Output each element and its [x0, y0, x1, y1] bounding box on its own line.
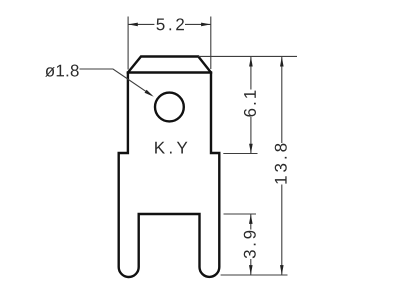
- dimension 6.1 line upper segment: [250, 57, 252, 90]
- dimension 5.2 extension line right: [210, 17, 212, 70]
- arrowhead 3.9 top: [249, 214, 253, 224]
- dimension text 13.8: [275, 144, 287, 184]
- notch extension line (3.9 top): [224, 213, 257, 215]
- leader line for hole diameter: [80, 69, 152, 95]
- dimension 13.8 line lower segment: [281, 185, 283, 275]
- arrowhead 3.9 bottom: [249, 265, 253, 275]
- part marking K.Y: [155, 142, 187, 154]
- arrowhead 6.1 top: [249, 57, 253, 67]
- dimension 3.9 line lower segment: [250, 259, 252, 275]
- arrowhead 6.1 bottom: [249, 144, 253, 154]
- arrowhead 5.2 right: [201, 23, 211, 27]
- hole: [155, 93, 184, 122]
- dimension 5.2 line right segment: [185, 23, 211, 25]
- chamfer fold line: [128, 71, 211, 73]
- dimension 3.9 line upper segment: [250, 214, 252, 229]
- arrowhead 5.2 left: [128, 23, 138, 27]
- dimension text 3.9: [244, 231, 256, 259]
- dimension 13.8 line upper segment: [281, 57, 283, 143]
- dimension 6.1 line lower segment: [250, 117, 252, 153]
- step extension line (6.1 bottom): [223, 153, 257, 155]
- dimension 5.2 extension line left: [127, 17, 129, 70]
- dimension 5.2 line left segment: [128, 23, 154, 25]
- bottom extension line: [221, 274, 288, 276]
- dimension text diameter 1.8: [45, 65, 78, 77]
- top extension line: [198, 55, 297, 57]
- arrowhead leader: [145, 90, 154, 97]
- dimension text 5.2: [156, 18, 183, 30]
- arrowhead 13.8 bottom: [280, 265, 284, 275]
- dimension text 6.1: [244, 91, 256, 117]
- terminal body outline: [119, 57, 220, 278]
- arrowhead 13.8 top: [280, 57, 284, 67]
